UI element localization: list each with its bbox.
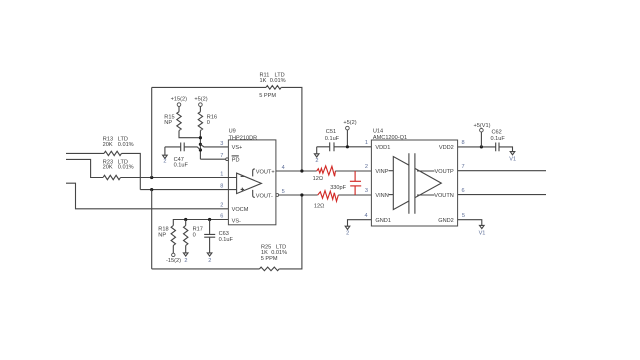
svg-text:2: 2 bbox=[163, 158, 166, 164]
svg-text:3: 3 bbox=[365, 188, 368, 194]
power terminal -15(2) bbox=[166, 246, 181, 265]
node junction VDD2 bbox=[480, 145, 483, 148]
svg-text:-15(2): -15(2) bbox=[166, 258, 181, 264]
svg-text:1K: 1K bbox=[260, 78, 267, 84]
svg-text:VOUTN: VOUTN bbox=[434, 193, 454, 199]
svg-text:VOCM: VOCM bbox=[232, 207, 249, 213]
U9 pin labels inside bbox=[232, 145, 249, 225]
wire 12R bottom to VINN bbox=[338, 194, 371, 196]
svg-text:+5(2): +5(2) bbox=[343, 120, 356, 126]
wire input stub C (VOCM) bbox=[66, 183, 228, 209]
svg-text:V1: V1 bbox=[509, 157, 516, 163]
isolation amp U14 symbol bbox=[393, 153, 441, 214]
resistor R23 bbox=[103, 159, 134, 179]
svg-text:VS+: VS+ bbox=[232, 145, 243, 151]
svg-text:0.01%: 0.01% bbox=[118, 142, 134, 148]
svg-text:1: 1 bbox=[220, 172, 223, 178]
node junction pin1/feedback bbox=[150, 176, 153, 179]
wire feedback left lower vertical bbox=[151, 190, 153, 269]
svg-text:+15(2): +15(2) bbox=[171, 97, 187, 103]
wire input stub B bbox=[66, 159, 103, 177]
wire VDD2 pin8 bbox=[458, 146, 496, 148]
svg-text:VINN: VINN bbox=[375, 193, 388, 199]
resistor 12R top (red) bbox=[313, 166, 336, 182]
capacitor 330pF (red) bbox=[330, 171, 361, 195]
svg-text:5: 5 bbox=[462, 213, 465, 219]
wire GND1 pin4 bbox=[348, 220, 372, 227]
wire 12R top to VINP bbox=[335, 170, 371, 172]
U9 pin numbers bbox=[220, 141, 284, 220]
power terminal +15(2) bbox=[171, 97, 187, 112]
wire VOUTP pin7 bbox=[458, 170, 546, 172]
svg-text:12Ω: 12Ω bbox=[314, 203, 324, 209]
node junction VDD1 bbox=[346, 145, 349, 148]
svg-text:20K: 20K bbox=[103, 164, 113, 170]
wire feedback bottom rail bbox=[152, 268, 260, 270]
svg-text:VS-: VS- bbox=[232, 219, 241, 225]
wire R15 bottom to rail bbox=[179, 131, 200, 138]
node junction C63/VS- bbox=[208, 218, 211, 221]
svg-text:12Ω: 12Ω bbox=[313, 176, 323, 182]
svg-text:U14: U14 bbox=[373, 128, 383, 134]
resistor R13 bbox=[103, 136, 134, 155]
resistor R11 bbox=[259, 73, 285, 99]
wire to pin 7 PD bbox=[200, 158, 225, 160]
resistor R16 bbox=[198, 112, 217, 131]
svg-text:2: 2 bbox=[208, 258, 211, 264]
svg-text:C62: C62 bbox=[492, 129, 502, 135]
power terminal +5(2) at C51 bbox=[343, 120, 356, 147]
resistor R15 bbox=[164, 112, 181, 131]
svg-text:0.1uF: 0.1uF bbox=[174, 162, 189, 168]
capacitor C63 bbox=[204, 220, 233, 244]
svg-text:THP210DR: THP210DR bbox=[229, 135, 258, 141]
wire feedback top rail right bbox=[281, 87, 302, 171]
svg-text:2: 2 bbox=[365, 164, 368, 170]
svg-text:V1: V1 bbox=[479, 230, 486, 236]
svg-text:VDD1: VDD1 bbox=[375, 145, 390, 151]
ground symbol V1 (GND2) bbox=[479, 225, 486, 236]
svg-text:0: 0 bbox=[207, 120, 210, 126]
wire VS- net bbox=[173, 220, 228, 226]
svg-text:4: 4 bbox=[364, 213, 367, 219]
capacitor C51 bbox=[317, 129, 372, 151]
resistor R18 bbox=[158, 226, 175, 246]
isolation amp U14 box bbox=[371, 128, 457, 226]
wire R13 to +input node bbox=[122, 153, 141, 189]
svg-text:5: 5 bbox=[282, 189, 285, 195]
node junction C47 tap bbox=[199, 148, 202, 151]
svg-text:8: 8 bbox=[462, 140, 465, 146]
resistor R25 bbox=[260, 245, 288, 271]
svg-text:20K: 20K bbox=[103, 142, 113, 148]
svg-text:0.1uF: 0.1uF bbox=[325, 136, 340, 142]
svg-text:1: 1 bbox=[365, 140, 368, 146]
U9 output brackets and labels bbox=[253, 169, 275, 200]
capacitor C47 bbox=[165, 143, 201, 169]
wire to pin 3 VS+ bbox=[200, 144, 228, 147]
wire supply node vertical bbox=[199, 131, 201, 160]
pin bubble U9 pin5 bbox=[276, 194, 279, 197]
power terminal +5(V1) bbox=[474, 123, 491, 147]
ground symbol V1 (C62) bbox=[509, 152, 516, 163]
node junction R17/VS- bbox=[184, 218, 187, 221]
svg-text:VOUT+: VOUT+ bbox=[256, 169, 275, 175]
svg-text:+5(2): +5(2) bbox=[194, 97, 207, 103]
ground symbol 2 (R17) bbox=[183, 246, 188, 265]
node junction R15/R16 bbox=[199, 136, 202, 139]
svg-text:7: 7 bbox=[462, 164, 465, 170]
wire U9 pin4 output VOUT+ row bbox=[276, 170, 317, 172]
node junction pin8/feedback bbox=[150, 188, 153, 191]
node junction feedback/VOUT+ bbox=[300, 169, 303, 172]
wire pin1 row (inverting input net) bbox=[121, 177, 229, 179]
svg-text:330pF: 330pF bbox=[330, 185, 346, 191]
ground symbol 2 (C51) bbox=[314, 147, 319, 164]
U14 pin numbers bbox=[364, 140, 465, 219]
svg-text:PD: PD bbox=[232, 157, 240, 163]
op-amp U9 triangle bbox=[228, 173, 261, 194]
svg-text:2: 2 bbox=[346, 231, 349, 237]
pin bubble PD bbox=[226, 158, 229, 161]
svg-text:5 PPM: 5 PPM bbox=[261, 256, 278, 262]
svg-text:8: 8 bbox=[220, 184, 223, 190]
wire pin8 row (non-inverting input net) bbox=[140, 189, 228, 191]
svg-text:GND1: GND1 bbox=[375, 218, 391, 224]
wire feedback bottom rail right bbox=[279, 195, 302, 269]
svg-text:0.01%: 0.01% bbox=[118, 164, 134, 170]
svg-text:7: 7 bbox=[220, 153, 223, 159]
svg-text:0.01%: 0.01% bbox=[270, 78, 286, 84]
svg-text:VOUTP: VOUTP bbox=[435, 169, 455, 175]
node junction feedback/VOUT- bbox=[300, 193, 303, 196]
svg-text:AMC1200-Q1: AMC1200-Q1 bbox=[373, 135, 407, 141]
svg-text:3: 3 bbox=[220, 141, 223, 147]
svg-text:6: 6 bbox=[462, 188, 465, 194]
resistor R17 bbox=[184, 220, 203, 246]
svg-text:0: 0 bbox=[193, 233, 196, 239]
svg-text:4: 4 bbox=[282, 165, 285, 171]
wire U9 pin5 output VOUT- row bbox=[279, 194, 318, 196]
wire feedback top rail bbox=[152, 86, 266, 88]
svg-text:0.1uF: 0.1uF bbox=[219, 237, 234, 243]
node junction VS+ tap bbox=[199, 143, 202, 146]
ground symbol 2 (C63) bbox=[207, 237, 212, 264]
svg-text:C51: C51 bbox=[326, 129, 336, 135]
wire feedback left upper vertical bbox=[151, 87, 153, 177]
U14 pin labels inside bbox=[375, 145, 454, 224]
svg-text:VDD2: VDD2 bbox=[439, 145, 454, 151]
svg-text:0.1uF: 0.1uF bbox=[491, 136, 506, 142]
svg-text:6: 6 bbox=[220, 214, 223, 220]
wire input stub A top-left bbox=[66, 152, 104, 154]
svg-text:2: 2 bbox=[220, 203, 223, 209]
wire GND2 pin5 bbox=[458, 220, 482, 226]
resistor 12R bottom (red) bbox=[314, 191, 338, 210]
svg-text:U9: U9 bbox=[229, 129, 236, 135]
op-amp U9 box bbox=[228, 129, 276, 225]
svg-text:VINP: VINP bbox=[375, 169, 388, 175]
svg-text:2: 2 bbox=[184, 258, 187, 264]
svg-text:NP: NP bbox=[158, 233, 166, 239]
svg-text:2: 2 bbox=[315, 158, 318, 164]
svg-text:5 PPM: 5 PPM bbox=[259, 93, 276, 99]
svg-text:VOUT-: VOUT- bbox=[256, 194, 273, 200]
svg-text:GND2: GND2 bbox=[438, 218, 454, 224]
wire VOUTN pin6 bbox=[458, 194, 546, 196]
capacitor C62 bbox=[491, 129, 513, 151]
svg-text:NP: NP bbox=[164, 120, 172, 126]
ground symbol 2 (C47) bbox=[163, 147, 168, 164]
power terminal +5(2) bbox=[194, 97, 207, 112]
ground symbol 2 (GND1) bbox=[345, 226, 350, 236]
